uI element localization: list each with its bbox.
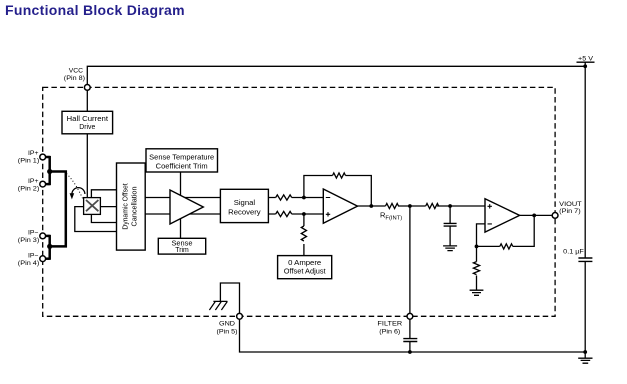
svg-text:Trim: Trim [175,245,189,254]
svg-text:VCC: VCC [69,68,83,75]
wire GND pin internal to chassis ground [220,283,239,313]
svg-text:(Pin 3): (Pin 3) [18,237,40,244]
wire cap node to ground [449,206,451,246]
node filter [408,204,412,208]
svg-text:IP+: IP+ [28,150,39,157]
svg-text:IP+: IP+ [28,178,39,185]
wire buffer minus input [477,224,486,247]
svg-text:Functional Block Diagram: Functional Block Diagram [5,2,185,18]
wire FILTER pin drop [409,206,411,313]
svg-text:FILTER: FILTER [377,321,402,328]
pin FILTER (Pin 6) [407,313,413,319]
block 0 Ampere Offset Adjust [278,256,332,279]
resistor R1 [276,195,292,200]
svg-text:Signal: Signal [234,198,256,207]
svg-text:(Pin 7): (Pin 7) [559,208,581,215]
svg-text:Recovery: Recovery [228,208,261,217]
wire +5V down right side [584,66,586,358]
resistor R7 [473,262,479,275]
wire Signal Recovery out bottom [268,213,323,215]
wire amp2 out to filter node [358,205,410,207]
svg-text:0.1 µF: 0.1 µF [563,249,584,256]
pin IP+ (Pin 2) [40,181,46,187]
wire IP+ stub pin1 [46,156,50,159]
block Signal Recovery [220,189,268,222]
pin VIOUT (Pin 7) [552,213,558,219]
wire bottom external rail [240,319,586,352]
block Sense Trim [158,238,205,254]
pin IP- (Pin 4) [40,256,46,262]
resistor R2 [276,211,292,216]
svg-text:(Pin 1): (Pin 1) [18,158,40,165]
resistor R3 [333,173,346,178]
field arrow arc [72,188,85,195]
IP bus thick conductor [46,156,66,260]
field arrowhead [70,193,75,199]
ground earth buffer [470,290,484,295]
wire IP+ stub pin2 [46,183,50,186]
svg-text:IP−: IP− [28,230,39,237]
pin VCC (Pin 8) [84,85,90,91]
wire IP- stub pin4 [46,257,50,260]
svg-text:Offset Adjust: Offset Adjust [284,267,326,276]
svg-text:(Pin 4): (Pin 4) [18,260,40,267]
svg-text:GND: GND [219,321,235,328]
node offset tap plus [302,212,306,216]
svg-text:0 Ampere: 0 Ampere [288,258,321,267]
block Sense Temperature Coefficient Trim [146,149,218,172]
wire hall right to DOC [100,206,116,208]
wire buffer output to VIOUT [520,214,553,216]
resistor RF(INT) [386,203,399,208]
resistor R6 [500,244,513,249]
svg-text:IP−: IP− [28,252,39,259]
node filter cap bottom [408,350,412,354]
node bottom right [583,350,587,354]
block Dynamic Offset Cancellation [117,163,146,250]
svg-text:Dynamic Offset: Dynamic Offset [121,183,130,229]
field arrow dotted curve [67,174,84,201]
op-amp U2 with +/- [323,189,357,223]
node comp cap [448,204,452,208]
svg-text:Drive: Drive [79,122,95,131]
wire hall bottom jog to DOC [91,214,116,222]
node amp2 output [369,204,373,208]
wire fb node to ground [476,246,478,290]
pin IP- (Pin 3) [40,233,46,239]
+5V rail bar [577,62,595,66]
resistor R4 [301,226,306,241]
svg-text:Coefficient Trim: Coefficient Trim [156,162,208,171]
wire hall left route to DOC [75,207,117,232]
svg-text:+5 V: +5 V [578,56,593,63]
pin IP+ (Pin 1) [40,154,46,160]
wire Signal Recovery out top [268,197,323,199]
wire SenseTempTrim to amp1 [180,172,182,195]
wire hall top jog to DOC [91,190,116,197]
chip boundary dashed border [43,87,555,316]
op-amp U3 buffer [485,199,520,232]
node fb tap minus [302,196,306,200]
wire VCC riser to +5V rail [87,66,585,84]
svg-text:(Pin 8): (Pin 8) [64,75,85,82]
wire offset tap [303,214,305,256]
wire IP+ bar [48,156,51,185]
ground earth bottom right [578,358,592,363]
wire filter node to buffer [410,205,485,207]
resistor R5 [426,203,439,208]
node buffer output [532,214,536,218]
node IP- junction [47,244,52,249]
node IP+ junction [47,169,52,174]
capacitor C bypass 0.1uF plates [578,258,592,261]
node +5V top [583,64,587,68]
ground earth comp [443,246,457,251]
svg-text:(Pin 5): (Pin 5) [217,328,238,335]
ground chassis symbol [209,301,227,310]
svg-text:(Pin 6): (Pin 6) [379,328,400,335]
wire IP- bar [48,235,51,260]
capacitor C filter plates [403,339,417,342]
node buffer fb [475,245,479,249]
svg-text:VIOUT: VIOUT [559,201,582,208]
wire conductor loop [50,172,66,247]
pin GND (Pin 5) [237,313,243,319]
svg-text:(Pin 2): (Pin 2) [18,185,40,192]
wire DOC to amp1 top [145,197,170,199]
op-amp U1 gain amp [170,190,203,224]
wire buffer feedback [477,215,535,246]
wire amp1 to Signal Recovery bottom [180,213,221,215]
svg-text:Cancellation: Cancellation [130,187,139,227]
wire FILTER pin to cap [409,319,411,352]
capacitor C comp plates [444,223,457,226]
wire VCC pin to Hall Current Drive [86,90,88,111]
wire IP- stub pin3 [46,235,50,238]
wire feedback amp2 [304,176,371,207]
wire amp1 to Sense Trim [180,218,182,238]
svg-text:Sense Temperature: Sense Temperature [149,153,214,162]
block Hall Current Drive [62,111,113,134]
wire amp1 to Signal Recovery top [180,197,221,199]
hall element X-box [84,198,101,215]
wire Hall Current Drive to hall element [86,133,88,198]
wire DOC to amp1 bottom [145,213,170,215]
